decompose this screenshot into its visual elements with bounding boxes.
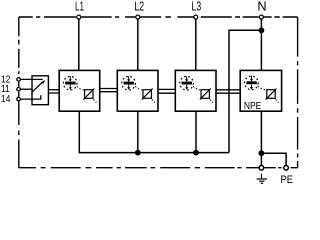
module 3 box (L3 arrester) <box>175 70 216 111</box>
wire terminal 14 to NO contact stub <box>21 95 41 99</box>
module 3 spark gap symbol <box>180 76 200 90</box>
changeover contact arm with arrow <box>32 82 42 92</box>
svg-text:L1: L1 <box>75 0 84 14</box>
ground symbol <box>257 174 267 184</box>
terminal L1 <box>77 15 81 19</box>
module 3 varistor element <box>200 89 213 103</box>
wire module 2 to common bus <box>137 111 139 152</box>
wire module 1 to common bus <box>79 111 229 152</box>
wire module 4 to earth terminal <box>260 111 262 165</box>
monitoring bus lower line <box>48 92 240 94</box>
svg-text:L3: L3 <box>192 0 202 14</box>
terminal PE <box>284 166 289 171</box>
wire N branch to phase-arrester common bus <box>229 30 261 152</box>
earth terminal <box>259 166 264 171</box>
wire L3 terminal to module 3 <box>195 19 197 70</box>
junction module 2 bus <box>135 150 141 156</box>
module 1 spark gap symbol <box>63 76 83 90</box>
module 2 box (L2 arrester) <box>117 70 158 111</box>
terminal 11 <box>17 87 21 91</box>
junction module 3 bus <box>193 150 199 156</box>
remote signalling contact box <box>32 76 48 105</box>
terminal N <box>259 15 263 19</box>
svg-text:14: 14 <box>1 93 11 105</box>
wire L1 terminal to module 1 <box>78 19 80 70</box>
terminal 12 <box>17 78 21 82</box>
module 4 spark gap symbol <box>245 76 265 90</box>
svg-text:PE: PE <box>280 175 293 184</box>
module 4 box (N-PE arrester) <box>240 70 281 111</box>
module 2 varistor element <box>142 89 155 103</box>
svg-text:L2: L2 <box>134 0 144 14</box>
svg-text:N: N <box>257 0 266 14</box>
wire terminal 11 common <box>21 88 33 90</box>
svg-text:NPE: NPE <box>244 100 261 111</box>
wire L2 terminal to module 2 <box>137 19 139 70</box>
terminal L2 <box>136 15 140 19</box>
wire terminal 12 to NC contact <box>21 78 43 80</box>
enclosure border (dash-dot outline of protection device) <box>19 17 298 168</box>
wire PE branch <box>261 153 286 165</box>
monitoring bus upper line <box>48 89 240 90</box>
module 1 box (L1 arrester) <box>59 70 99 111</box>
junction N branch <box>259 27 265 33</box>
terminal 14 <box>17 97 21 101</box>
module 2 spark gap symbol <box>122 76 142 90</box>
junction PE branch <box>259 150 265 156</box>
terminal L3 <box>194 15 198 19</box>
wire module 3 to common bus <box>195 111 197 152</box>
module 1 varistor element <box>83 89 96 103</box>
wire N terminal to module 4 (N-PE spark gap) <box>260 19 262 70</box>
module 4 varistor element <box>266 89 279 103</box>
